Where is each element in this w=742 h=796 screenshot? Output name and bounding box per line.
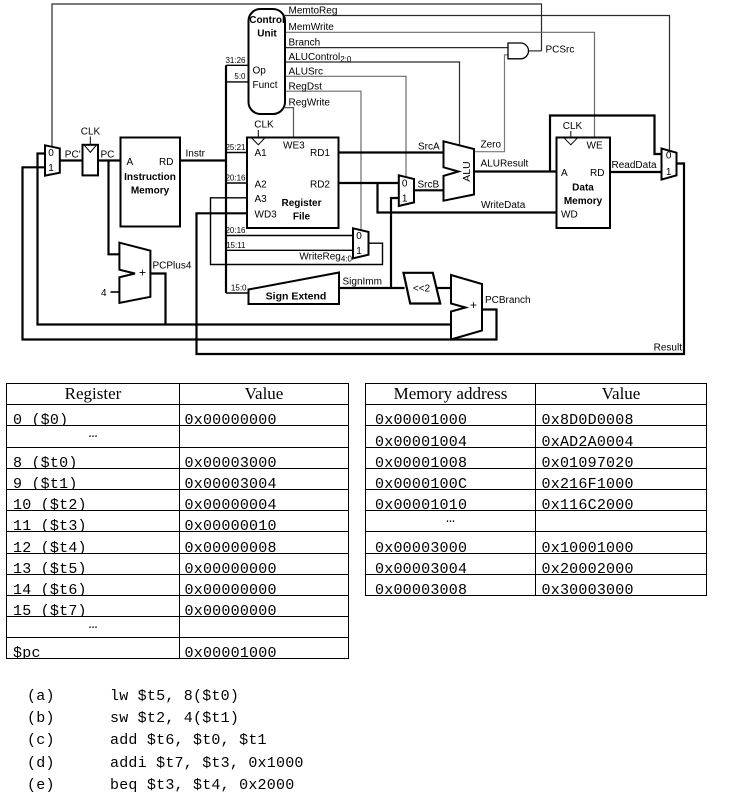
svg-text:RegWrite: RegWrite [289, 98, 331, 109]
svg-text:WriteReg4:0: WriteReg4:0 [299, 252, 352, 264]
wire ALUSrc [285, 76, 406, 177]
wire PC down to PCPlus4 adder [109, 161, 121, 255]
svg-text:Instr: Instr [186, 149, 206, 160]
svg-text:Register: Register [281, 198, 321, 209]
wire PC to instruction memory [98, 159, 121, 161]
svg-text:A1: A1 [255, 148, 268, 159]
svg-text:Unit: Unit [257, 29, 277, 40]
svg-text:Memory: Memory [564, 196, 603, 207]
wire PCSrc top run [52, 4, 542, 147]
svg-text:PCPlus4: PCPlus4 [153, 261, 192, 272]
svg-text:SignImm: SignImm [343, 277, 382, 288]
svg-text:WD: WD [561, 210, 578, 221]
svg-text:CLK: CLK [254, 120, 274, 131]
svg-text:SrcB: SrcB [418, 180, 440, 191]
wire AND output to PCSrc [528, 50, 541, 52]
svg-text:5:0: 5:0 [234, 72, 246, 81]
svg-text:CLK: CLK [563, 121, 583, 132]
wire ALUResult [474, 170, 557, 172]
svg-text:0: 0 [402, 178, 408, 189]
adder PCBranch [451, 275, 482, 340]
control unit U-control [249, 9, 286, 114]
svg-text:ALUResult: ALUResult [481, 159, 529, 170]
svg-text:WD3: WD3 [255, 210, 278, 221]
svg-text:RD: RD [590, 168, 604, 179]
wire PCPlus4 feedback to mux0 [38, 154, 452, 325]
svg-text:PCBranch: PCBranch [485, 295, 531, 306]
data memory [557, 121, 611, 228]
wire ALUControl [285, 62, 460, 146]
register table [6, 383, 349, 659]
svg-text:4: 4 [101, 288, 107, 299]
svg-text:1: 1 [666, 167, 672, 178]
svg-text:Funct: Funct [253, 80, 278, 91]
adder PCPlus4 [119, 243, 150, 303]
svg-text:Data: Data [572, 183, 594, 194]
wire PCPlus4 adder output [150, 274, 165, 325]
svg-text:A2: A2 [255, 180, 268, 191]
wire Branch [285, 47, 508, 49]
svg-text:File: File [293, 212, 311, 223]
svg-text:Branch: Branch [289, 38, 321, 49]
shifter shift-left-2 [404, 273, 441, 304]
svg-text:ALU: ALU [461, 161, 473, 181]
svg-text:PC': PC' [65, 150, 81, 161]
wire Instr [180, 159, 226, 161]
wire 25:21 to A1 [226, 152, 247, 154]
wire shift left 2 out to PCBranch adder [436, 287, 452, 289]
svg-text:20:16: 20:16 [225, 174, 246, 183]
wire RD2 to SrcB mux 0 [339, 182, 399, 184]
wire Zero to AND gate [474, 55, 508, 152]
register file [247, 120, 339, 229]
svg-text:1: 1 [48, 163, 54, 174]
wire 31:26 to Op [226, 64, 249, 66]
wire 4 constant stub [111, 291, 120, 293]
svg-text:15:11: 15:11 [226, 241, 246, 250]
svg-text:+: + [470, 298, 477, 312]
wire 5:0 to Funct [226, 81, 249, 83]
wire ALUResult over data memory to result mux 0 [550, 116, 662, 172]
svg-text:ALUControl2:0: ALUControl2:0 [289, 52, 352, 64]
svg-text:0: 0 [666, 151, 672, 162]
svg-text:Op: Op [253, 66, 267, 77]
svg-text:MemtoReg: MemtoReg [289, 6, 338, 17]
wire 20:16 to A2 [226, 182, 247, 184]
wire 15:0 to sign extend [226, 292, 249, 294]
wire Instr vertical bus [225, 65, 227, 293]
assembly listing [27, 686, 304, 796]
svg-text:RegDst: RegDst [289, 82, 323, 93]
svg-text:Instruction: Instruction [124, 172, 176, 183]
sign extend [249, 273, 340, 305]
wire SignImm up to SrcB mux 1 [391, 198, 399, 288]
svg-text:Sign Extend: Sign Extend [266, 291, 327, 303]
wire Result loop to WD3 [197, 164, 685, 355]
svg-text:Result: Result [654, 343, 683, 354]
mux SrcB [399, 175, 414, 206]
svg-text:Zero: Zero [481, 140, 502, 151]
svg-text:20:16: 20:16 [225, 226, 246, 235]
svg-text:MemWrite: MemWrite [289, 22, 335, 33]
wire MemtoReg [285, 16, 670, 151]
wire PCBranch feedback to mux1 [23, 167, 497, 339]
svg-text:SrcA: SrcA [418, 142, 440, 153]
wire RegWrite [285, 108, 294, 138]
svg-text:15:0: 15:0 [231, 284, 247, 293]
svg-text:Control: Control [249, 15, 285, 26]
svg-text:ReadData: ReadData [612, 160, 657, 171]
wire 15:11 to WriteReg mux 1 [226, 249, 353, 251]
wire RD1 to SrcA [339, 151, 445, 153]
svg-text:25:21: 25:21 [225, 143, 246, 152]
instruction memory [121, 138, 181, 227]
svg-text:RD1: RD1 [310, 148, 330, 159]
register PC [81, 127, 101, 176]
wire ReadData to result mux 1 [610, 171, 662, 173]
mux WriteReg [353, 228, 369, 258]
svg-text:ALUSrc: ALUSrc [289, 67, 323, 78]
wire SrcB mux out to ALU [414, 189, 444, 191]
svg-text:0: 0 [48, 148, 54, 159]
wire 20:16 to WriteReg mux 0 [226, 235, 353, 237]
svg-text:PCSrc: PCSrc [546, 45, 575, 56]
wire WriteData [378, 183, 557, 213]
svg-text:1: 1 [402, 194, 408, 205]
svg-text:+: + [139, 266, 146, 280]
svg-text:RD: RD [159, 157, 173, 168]
mux PC source [45, 145, 60, 175]
svg-text:WE3: WE3 [283, 141, 305, 152]
svg-text:A3: A3 [255, 194, 268, 205]
svg-text:<<2: <<2 [413, 284, 431, 295]
wire WriteReg loop to A3 [211, 198, 383, 265]
svg-text:1: 1 [356, 246, 362, 257]
svg-text:PC: PC [101, 150, 115, 161]
wire MemWrite [285, 32, 595, 137]
memory table [365, 383, 707, 596]
svg-text:WriteData: WriteData [481, 200, 526, 211]
mux Result [662, 149, 677, 180]
wire PC' mux to PC register [60, 159, 83, 161]
gate AND PCSrc [508, 43, 529, 59]
svg-text:31:26: 31:26 [225, 56, 246, 65]
wire SignImm [339, 287, 405, 289]
svg-text:CLK: CLK [81, 127, 101, 138]
alu U-ALU [444, 141, 475, 200]
svg-text:Memory: Memory [131, 186, 170, 197]
svg-text:A: A [561, 168, 568, 179]
wire RegDst [285, 91, 361, 230]
svg-text:RD2: RD2 [310, 180, 330, 191]
svg-text:A: A [127, 157, 134, 168]
svg-text:WE: WE [587, 141, 603, 152]
svg-text:0: 0 [356, 231, 362, 242]
